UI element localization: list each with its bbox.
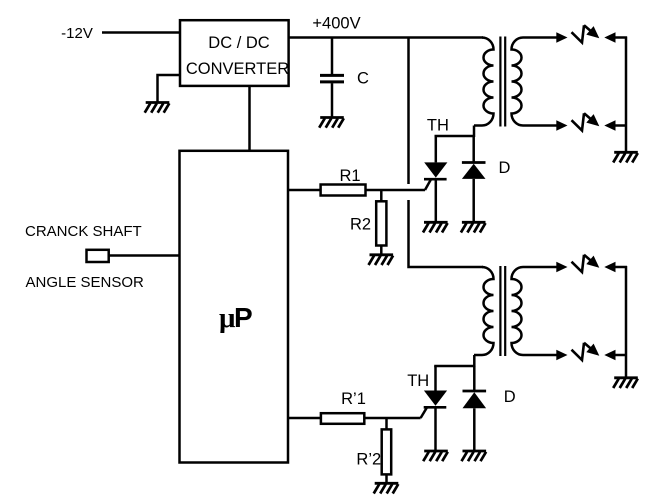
- svg-text:TH: TH: [427, 117, 449, 135]
- label D2: [504, 388, 516, 406]
- ground TH1: [423, 222, 448, 232]
- wire R1 to thyristor TH1 gate: [366, 189, 426, 192]
- DC/DC converter U1 box: [180, 20, 289, 86]
- spark gap SG1 top: [523, 25, 627, 43]
- svg-text:C: C: [357, 70, 369, 88]
- label TH1: [427, 117, 449, 135]
- wire converter to ground: [158, 75, 182, 103]
- svg-text:-12V: -12V: [61, 25, 93, 42]
- label D1: [499, 159, 511, 177]
- svg-text:R1: R1: [339, 167, 360, 185]
- wire HT return rail module2: [625, 266, 628, 378]
- node +400V label: [312, 15, 360, 33]
- ground HT rail module2: [613, 378, 638, 388]
- wire converter to microprocessor: [248, 86, 251, 151]
- svg-text:CONVERTER: CONVERTER: [186, 60, 289, 78]
- spark gap SG4 bottom: [523, 343, 627, 361]
- wire +400V drop lower segment to transformer T2: [409, 200, 484, 267]
- wire T2 primary to TH2 node: [473, 355, 476, 367]
- wire R'1 to thyristor TH2 gate: [364, 417, 420, 420]
- transformer T2 core: [500, 266, 505, 356]
- node -12V supply label: [61, 25, 93, 42]
- svg-text:CRANCK SHAFT: CRANCK SHAFT: [25, 223, 142, 240]
- spark gap SG3 top: [523, 255, 627, 272]
- resistor R'2: [356, 429, 391, 474]
- svg-text:+400V: +400V: [312, 15, 360, 33]
- ground D1: [461, 222, 486, 232]
- ground TH2: [423, 451, 448, 461]
- wire microprocessor to R1: [288, 189, 321, 192]
- svg-text:D: D: [499, 159, 511, 177]
- capacitor C1: [320, 70, 369, 119]
- svg-text:P: P: [234, 302, 253, 333]
- ground capacitor: [319, 118, 344, 128]
- label ANGLE SENSOR: [26, 274, 145, 291]
- ground D2: [462, 451, 487, 461]
- thyristor TH1: [424, 136, 447, 223]
- diode D1: [462, 136, 486, 223]
- svg-text:D: D: [504, 388, 516, 406]
- wire R2 lead: [380, 190, 383, 202]
- svg-text:ANGLE SENSOR: ANGLE SENSOR: [26, 274, 145, 291]
- ground R2: [369, 255, 394, 265]
- transformer T1 core: [500, 37, 505, 127]
- transformer T2 secondary: [512, 267, 524, 355]
- svg-text:R2: R2: [350, 215, 371, 233]
- ground HT rail module1: [613, 152, 638, 162]
- wire -12V input to DC/DC converter: [102, 31, 181, 34]
- svg-text:R’1: R’1: [341, 390, 366, 408]
- wire T1 primary to TH1 node: [473, 126, 476, 138]
- wire converter output +400V rail: [289, 36, 483, 39]
- ground R'2: [374, 483, 399, 493]
- transformer T1 primary: [474, 38, 494, 126]
- label TH2: [407, 372, 429, 390]
- wire TH2 anode node: [434, 365, 474, 368]
- wire TH1 anode node: [435, 135, 475, 138]
- transformer T2 primary: [474, 267, 494, 355]
- spark gap SG2 bottom: [523, 113, 627, 131]
- resistor R1: [321, 167, 366, 196]
- wire microprocessor to R'1: [288, 417, 322, 420]
- wire R'2 to ground: [385, 474, 388, 483]
- resistor R'1: [321, 390, 366, 424]
- wire +400V drop upper segment: [407, 37, 410, 185]
- wire sensor to microprocessor: [109, 254, 180, 257]
- label CRANK SHAFT: [25, 223, 142, 240]
- svg-text:DC / DC: DC / DC: [208, 34, 270, 52]
- microprocessor U2 box: [180, 151, 289, 463]
- svg-text:TH: TH: [407, 372, 429, 390]
- crank shaft angle sensor box: [87, 250, 109, 262]
- wire R'2 lead: [385, 418, 388, 430]
- transformer T1 secondary: [512, 38, 524, 126]
- diode D2: [463, 366, 487, 451]
- wire HT return rail module1: [625, 37, 628, 153]
- resistor R2: [350, 201, 386, 245]
- thyristor TH2: [421, 366, 448, 451]
- svg-text:R’2: R’2: [356, 451, 381, 469]
- ground converter: [145, 103, 170, 113]
- capacitor C1 top lead: [331, 38, 334, 75]
- wire R2 to ground: [380, 246, 383, 256]
